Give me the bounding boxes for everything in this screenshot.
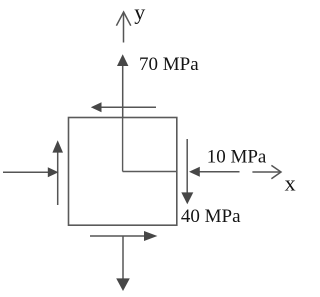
- svg-text:x: x: [285, 171, 296, 196]
- bottom normal stress arrowhead: [116, 278, 130, 291]
- inner partition horizontal line: [123, 171, 177, 173]
- x axis shaft: [252, 171, 280, 173]
- 70 MPa arrow shaft (top, up): [122, 65, 124, 118]
- left shear arrowhead: [52, 140, 63, 152]
- y axis shaft: [123, 13, 125, 43]
- top shear arrow shaft (leftward): [101, 106, 157, 108]
- 70 MPa arrowhead: [117, 54, 128, 66]
- top shear arrowhead: [91, 102, 102, 112]
- svg-text:40 MPa: 40 MPa: [181, 206, 241, 227]
- bottom normal stress arrow shaft (downward): [122, 236, 124, 279]
- 10 MPa arrow shaft (leftward): [200, 171, 240, 173]
- bottom shear arrow shaft (rightward): [90, 235, 145, 237]
- inner partition vertical line: [122, 118, 124, 172]
- left shear arrow shaft (upward): [57, 152, 59, 206]
- svg-text:70 MPa: 70 MPa: [139, 54, 199, 75]
- 40 MPa arrowhead: [181, 192, 193, 204]
- y axis open arrowhead: [116, 12, 130, 26]
- x axis open arrowhead: [271, 165, 281, 178]
- stress element square: [69, 118, 177, 226]
- left normal stress arrowhead: [48, 167, 59, 177]
- bottom shear arrowhead: [144, 231, 157, 241]
- svg-text:10 MPa: 10 MPa: [207, 146, 267, 167]
- 40 MPa arrow shaft (right side, down): [186, 139, 188, 193]
- 10 MPa arrowhead: [189, 167, 200, 177]
- left normal stress arrow shaft (rightward): [3, 171, 49, 173]
- svg-text:y: y: [134, 0, 145, 25]
